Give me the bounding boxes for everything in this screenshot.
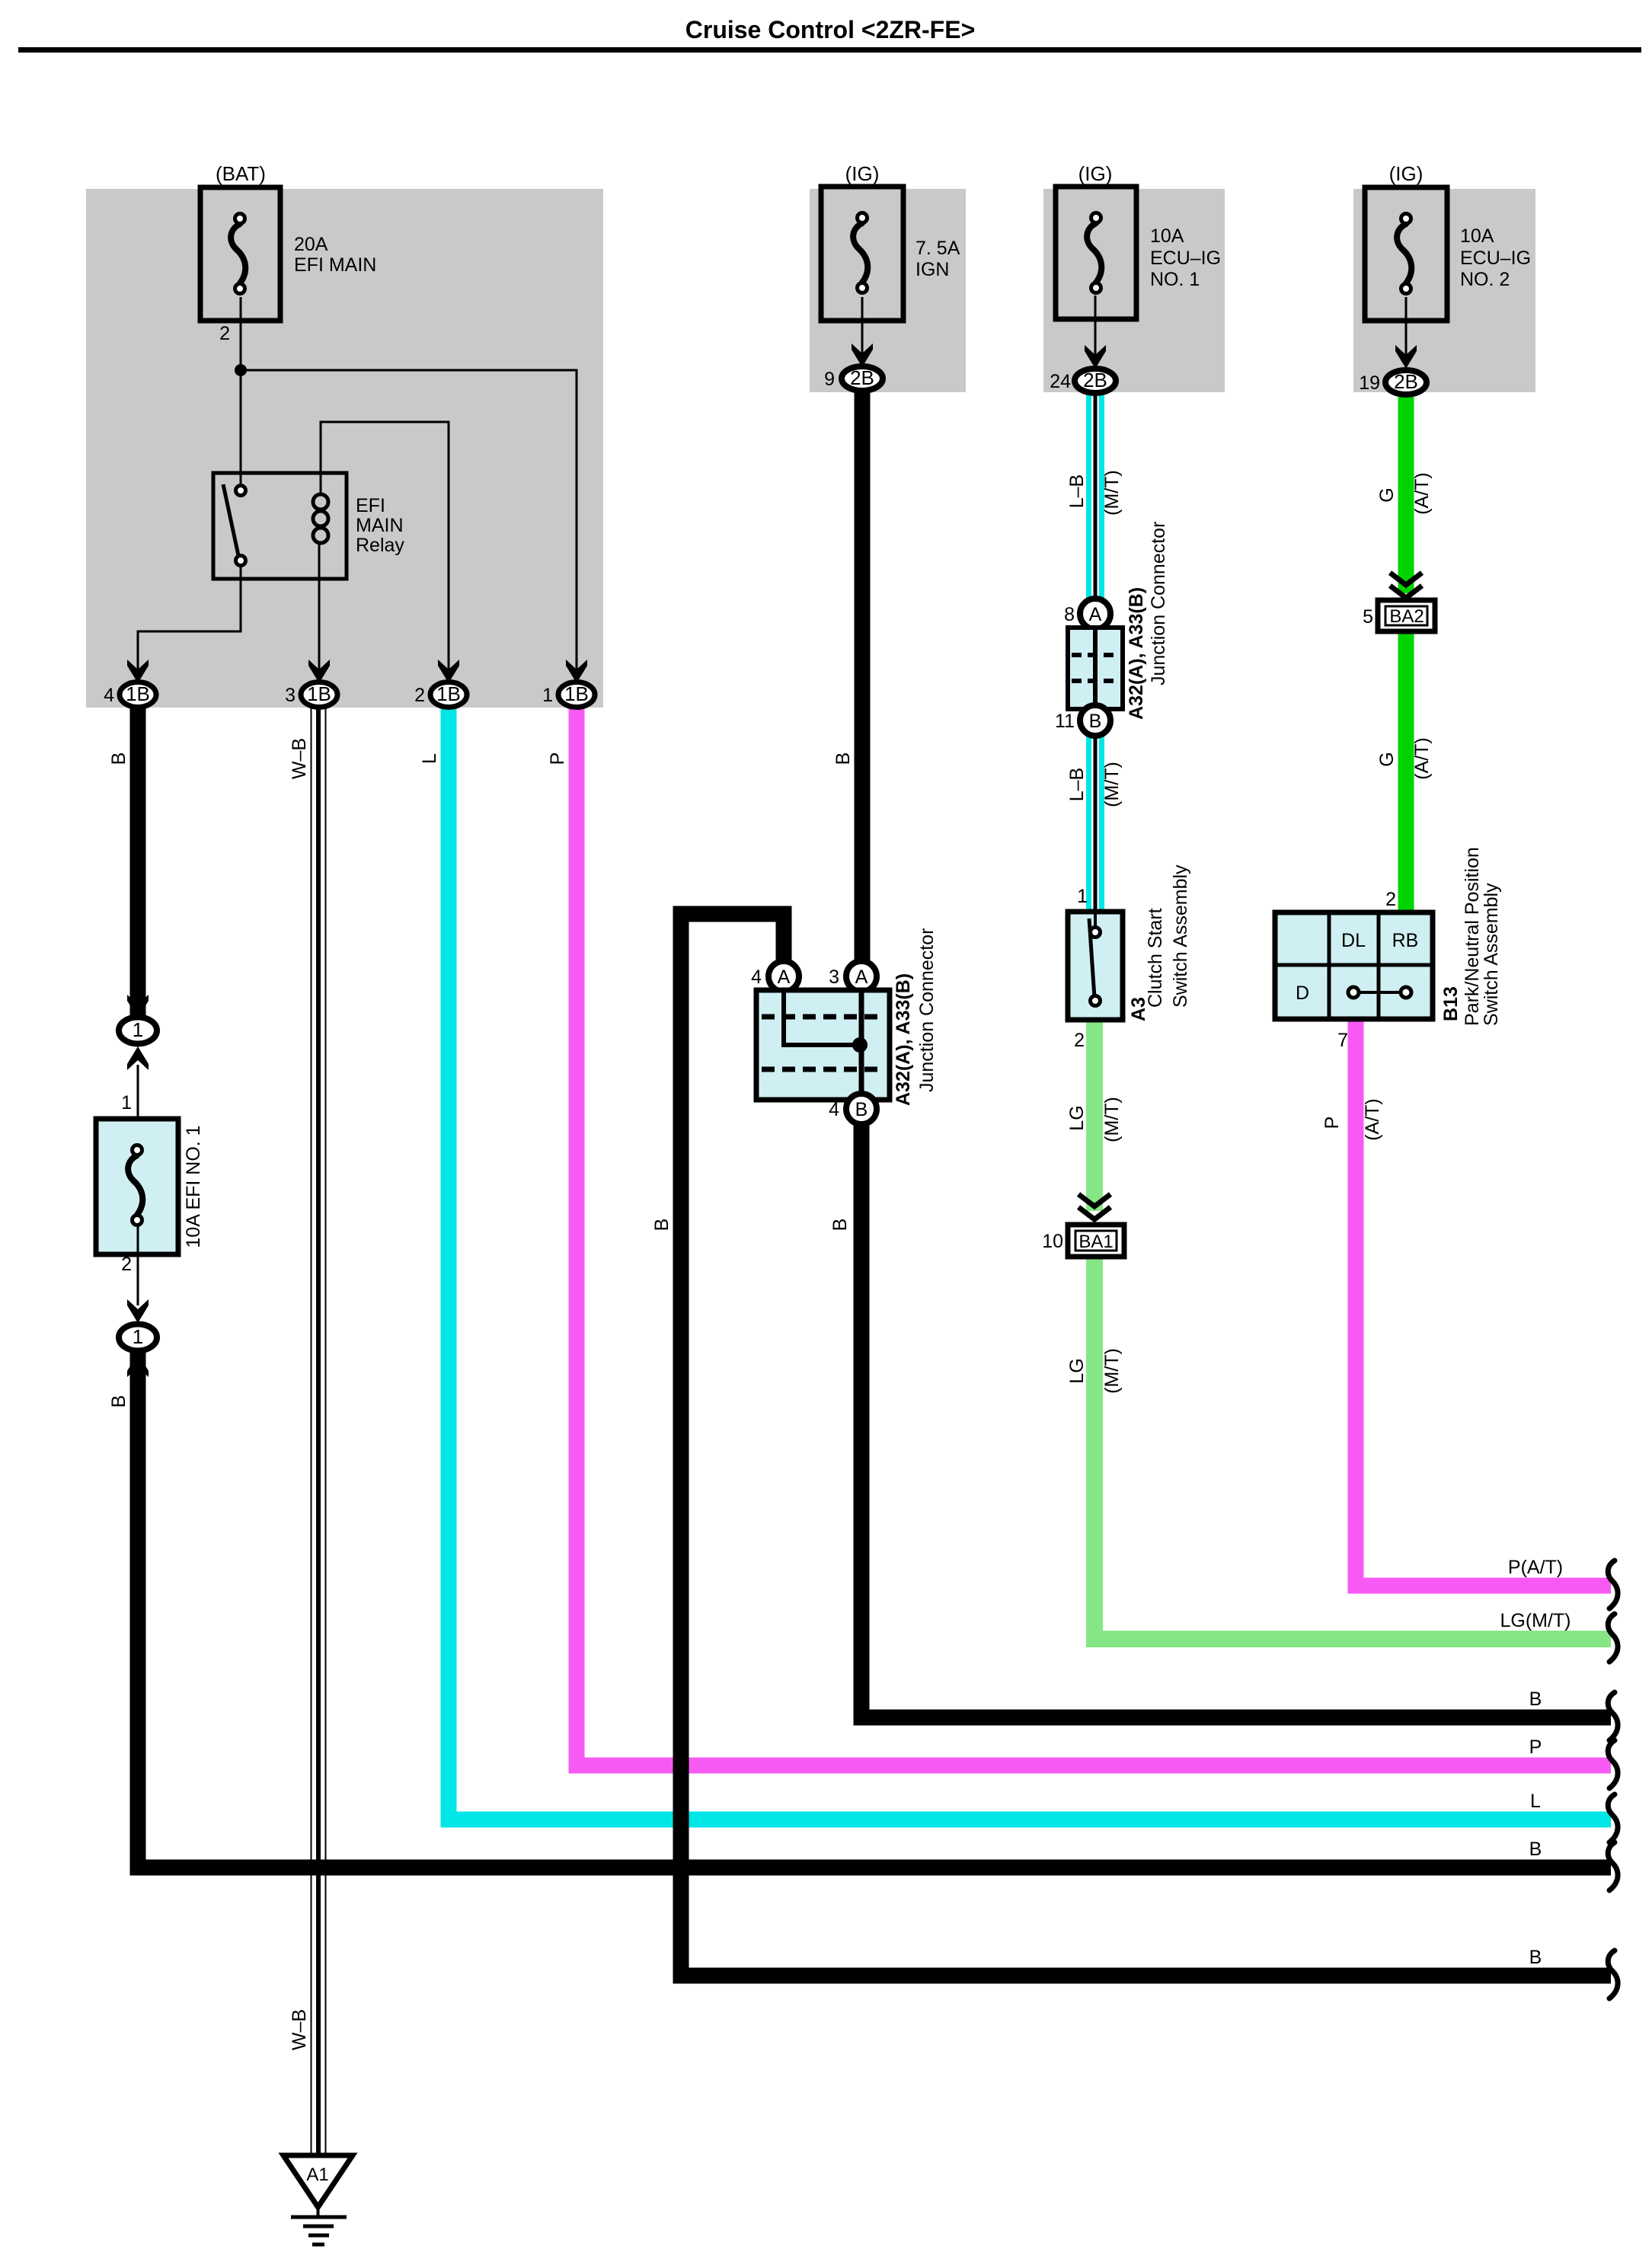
fuse 10A EFI NO. 1 [96, 1119, 178, 1254]
svg-text:(A/T): (A/T) [1362, 1098, 1383, 1141]
B13 contact left [1348, 987, 1359, 998]
svg-text:2B: 2B [1394, 370, 1418, 393]
svg-text:A: A [855, 966, 868, 988]
svg-text:B: B [1529, 1839, 1542, 1860]
svg-text:BA1: BA1 [1078, 1232, 1113, 1252]
svg-text:5: 5 [1363, 606, 1373, 628]
svg-text:B: B [108, 1395, 129, 1408]
arrowhead into connector 1 (top) [127, 995, 149, 1018]
junction connector A32/A33 small box [1068, 628, 1123, 709]
svg-text:19: 19 [1359, 372, 1380, 394]
svg-text:11: 11 [1055, 711, 1075, 732]
svg-text:Junction Connector: Junction Connector [1148, 522, 1169, 685]
svg-text:W–B: W–B [289, 2009, 310, 2050]
wire node 2 of fuse EFI MAIN to junction dot [240, 297, 242, 370]
clutch switch lever [1089, 919, 1094, 998]
wire junction dot to 1B pin 1 [241, 370, 577, 683]
B13 contact right [1401, 987, 1411, 998]
junction connector internal node dot [852, 1037, 868, 1053]
svg-text:B: B [1529, 1947, 1542, 1968]
svg-text:Clutch Start: Clutch Start [1145, 908, 1166, 1008]
junction connector ring B11 [1080, 705, 1110, 736]
relay EFI MAIN box [213, 473, 347, 579]
svg-text:RB: RB [1392, 930, 1419, 951]
wire L cyan from 1B pin 2 to right edge [449, 708, 1611, 1820]
svg-text:B13: B13 [1440, 986, 1462, 1021]
svg-text:9: 9 [824, 369, 835, 390]
wire fuse EFI NO.1 to connector 1 (lower) [137, 1223, 139, 1305]
node junction dot below fuse EFI MAIN [235, 364, 247, 376]
svg-text:1B: 1B [436, 682, 461, 705]
relay switch contact top [236, 486, 246, 496]
connector 1 (upper) [119, 1018, 157, 1044]
svg-text:G: G [1376, 487, 1398, 502]
svg-text:2B: 2B [1083, 369, 1107, 391]
svg-text:1B: 1B [126, 682, 150, 705]
connector 2B pin 19 [1385, 370, 1427, 395]
continuation squiggle for P(A/T) wire [1608, 1561, 1618, 1609]
svg-text:1B: 1B [307, 682, 331, 705]
continuation squiggle for B wire [1608, 1692, 1618, 1740]
title rule [18, 47, 1641, 53]
gray fuse panel (IG) ECU-IG NO.1 [1043, 189, 1225, 392]
wire B thick from junction connector B4 to right edge [861, 1123, 1611, 1717]
arrowhead into 1B pin 2 [438, 660, 459, 683]
svg-text:(M/T): (M/T) [1101, 1097, 1123, 1142]
svg-text:2: 2 [121, 1254, 132, 1275]
chevrons into BA2 [1390, 573, 1422, 585]
arrowhead up below connector 1 (bottom) [127, 1353, 149, 1377]
svg-text:D: D [1296, 982, 1309, 1004]
svg-text:1: 1 [121, 1092, 132, 1113]
svg-text:Switch Assembly: Switch Assembly [1170, 864, 1191, 1008]
svg-text:L–B: L–B [1066, 768, 1088, 801]
wire fuse IGN to 2B pin 9 [861, 297, 864, 355]
wire P magenta from 1B pin 1 to right edge [577, 708, 1611, 1765]
svg-text:LG: LG [1066, 1358, 1088, 1383]
svg-text:8: 8 [1064, 604, 1075, 625]
svg-text:10: 10 [1042, 1231, 1063, 1252]
fuse 10A ECU-IG NO.1 [1056, 187, 1136, 319]
svg-text:L: L [419, 753, 440, 764]
arrowhead into 1B pin 1 [566, 660, 587, 683]
svg-text:Park/Neutral Position: Park/Neutral Position [1462, 847, 1483, 1026]
svg-text:EFI MAIN: EFI MAIN [294, 254, 376, 276]
svg-text:P: P [1529, 1736, 1542, 1758]
fuse 7.5A IGN [821, 187, 903, 321]
svg-text:G: G [1376, 752, 1398, 766]
svg-text:Cruise Control <2ZR-FE>: Cruise Control <2ZR-FE> [685, 16, 976, 43]
wire G from BA2 to park/neutral switch pin 2 [1398, 631, 1414, 913]
svg-text:A32(A), A33(B): A32(A), A33(B) [893, 973, 914, 1106]
connector 1B pin 1 [558, 682, 595, 708]
svg-text:A32(A), A33(B): A32(A), A33(B) [1126, 587, 1147, 720]
wire fuse ECU-IG NO.1 to 2B pin 24 [1094, 296, 1097, 355]
svg-text:P: P [1321, 1117, 1343, 1129]
connector 2B pin 24 [1075, 369, 1116, 393]
continuation squiggle for L wire [1608, 1794, 1618, 1842]
svg-text:B: B [855, 1099, 868, 1120]
connector BA1 [1068, 1225, 1124, 1257]
svg-text:2: 2 [1385, 889, 1396, 910]
svg-text:MAIN: MAIN [356, 515, 404, 536]
svg-text:(IG): (IG) [845, 162, 880, 185]
svg-text:DL: DL [1341, 930, 1366, 951]
junction connector ring A8 [1080, 599, 1110, 629]
svg-text:2: 2 [1074, 1030, 1085, 1051]
svg-text:20A: 20A [294, 234, 328, 255]
wire L-B from 2B pin 24 to junction connector A8 [1086, 393, 1104, 599]
arrowhead into 2B pin 24 [1085, 345, 1106, 369]
arrowhead into 1B pin 4 [127, 660, 149, 683]
gray relay/fuse panel (BAT) [86, 189, 603, 708]
wire L-B from junction connector B11 to clutch switch pin 1 [1086, 735, 1104, 912]
gray fuse panel (IG) ECU-IG NO.2 [1353, 189, 1535, 392]
svg-text:A: A [778, 966, 791, 988]
wire relay switch to 1B pin 4 [138, 565, 241, 683]
svg-text:Switch Assembly: Switch Assembly [1481, 883, 1502, 1026]
wire relay coil to 1B pin 3 [318, 542, 321, 683]
arrowhead into 2B pin 9 [852, 343, 873, 367]
arrowhead into 2B pin 19 [1395, 345, 1417, 369]
fuse 20A EFI MAIN [200, 187, 280, 321]
wire LG from clutch switch pin 2 to BA1 [1086, 1019, 1103, 1211]
svg-text:B: B [651, 1219, 673, 1232]
svg-text:B: B [108, 752, 129, 765]
wire connector 1 to fuse EFI NO.1 [137, 1065, 139, 1147]
ground hatch lines [291, 2216, 347, 2219]
svg-text:10A: 10A [1460, 225, 1494, 247]
fuse 10A ECU-IG NO.2 [1365, 187, 1447, 321]
wire B thick from 1B pin 4 to connector 1 [130, 708, 146, 1018]
svg-text:(M/T): (M/T) [1101, 762, 1123, 807]
junction connector A32/A33 ring A3 [846, 961, 877, 992]
svg-text:1: 1 [133, 1325, 143, 1348]
chevrons into BA1 [1078, 1194, 1110, 1206]
connector 1B pin 4 [120, 682, 156, 708]
junction connector internal link [784, 992, 856, 1045]
svg-text:LG: LG [1066, 1105, 1088, 1130]
clutch switch contact bottom [1091, 996, 1101, 1006]
svg-text:NO. 1: NO. 1 [1150, 269, 1200, 290]
svg-text:2: 2 [414, 685, 425, 706]
junction connector A32/A33 ring B4 [846, 1094, 877, 1124]
connector 1B pin 3 [301, 682, 337, 708]
svg-text:P: P [547, 752, 568, 765]
wire relay coil feed from 1B pin 2 riser [321, 422, 449, 683]
svg-text:2B: 2B [850, 366, 874, 389]
svg-text:(A/T): (A/T) [1411, 737, 1433, 780]
svg-text:4: 4 [104, 685, 114, 706]
wire B thick from connector 1 to right edge [138, 1353, 1611, 1867]
wire fuse ECU-IG NO.2 to 2B pin 19 [1405, 297, 1408, 355]
svg-text:L: L [1530, 1791, 1541, 1812]
svg-text:NO. 2: NO. 2 [1460, 269, 1510, 290]
connector 2B pin 9 [842, 366, 883, 391]
wire B thick from 2B pin 9 to junction connector A3 ring [855, 390, 871, 962]
svg-text:B: B [832, 752, 854, 765]
wire B thick branch elbow to junction connector A4 and right edge [681, 914, 1611, 1976]
arrowhead into connector 1 (bottom) [127, 1299, 149, 1323]
svg-text:B: B [829, 1219, 851, 1232]
svg-text:(M/T): (M/T) [1101, 1348, 1123, 1394]
svg-text:2: 2 [219, 323, 230, 344]
svg-text:1: 1 [1077, 886, 1088, 907]
svg-text:(A/T): (A/T) [1411, 472, 1433, 515]
svg-text:ECU–IG: ECU–IG [1150, 248, 1221, 269]
B13 switch link [1359, 991, 1401, 994]
svg-text:3: 3 [829, 966, 839, 988]
svg-text:W–B: W–B [289, 738, 310, 779]
svg-text:(IG): (IG) [1389, 162, 1424, 185]
continuation squiggle for B wire [1608, 1950, 1618, 1998]
svg-text:P(A/T): P(A/T) [1508, 1557, 1563, 1578]
svg-text:(M/T): (M/T) [1101, 470, 1123, 516]
svg-text:(IG): (IG) [1078, 162, 1113, 185]
arrowhead up below connector 1 (top) [127, 1046, 149, 1070]
svg-text:EFI: EFI [356, 495, 385, 516]
svg-text:L–B: L–B [1066, 474, 1088, 508]
continuation squiggle for P wire [1608, 1740, 1618, 1788]
svg-text:7. 5A: 7. 5A [915, 238, 960, 259]
svg-text:A1: A1 [306, 2165, 328, 2185]
connector 1B pin 2 [430, 682, 467, 708]
arrowhead into 1B pin 3 [308, 660, 330, 683]
continuation squiggle for B wire [1608, 1842, 1618, 1890]
svg-text:10A EFI NO. 1: 10A EFI NO. 1 [183, 1125, 204, 1248]
svg-text:BA2: BA2 [1389, 606, 1424, 627]
svg-text:1: 1 [542, 685, 553, 706]
svg-text:4: 4 [751, 966, 762, 988]
clutch start switch assembly box [1068, 912, 1123, 1020]
svg-text:ECU–IG: ECU–IG [1460, 248, 1531, 269]
relay switch contact bottom [236, 556, 246, 566]
svg-text:A: A [1089, 604, 1102, 625]
clutch switch contact top [1091, 928, 1101, 938]
svg-text:24: 24 [1050, 371, 1071, 392]
svg-text:Junction Connector: Junction Connector [916, 928, 938, 1092]
svg-text:IGN: IGN [915, 259, 949, 280]
svg-text:B: B [1089, 711, 1102, 732]
junction connector A32(A) A33(B) box [756, 990, 890, 1100]
wire LG from BA1 to right edge [1094, 1257, 1611, 1639]
wire P magenta from park/neutral switch pin 7 to right edge [1356, 1019, 1611, 1586]
wire junction dot to relay contact [240, 370, 242, 494]
ground A1 triangle [283, 2155, 353, 2207]
svg-text:(BAT): (BAT) [216, 162, 266, 185]
relay coil [313, 494, 328, 510]
connector BA2 [1378, 600, 1435, 631]
gray fuse panel (IG) IGN [810, 189, 966, 392]
relay switch lever [223, 484, 239, 559]
junction connector A32/A33 ring A4 [768, 961, 799, 992]
svg-text:7: 7 [1337, 1030, 1348, 1051]
svg-text:1B: 1B [564, 682, 589, 705]
svg-text:4: 4 [829, 1099, 839, 1120]
wire W-B double line from 1B pin 3 to ground A1 [311, 708, 312, 2154]
wire stub to clutch switch contact [1094, 912, 1097, 929]
svg-text:1: 1 [133, 1018, 143, 1041]
svg-text:LG(M/T): LG(M/T) [1500, 1610, 1571, 1631]
continuation squiggle for LG(M/T) wire [1608, 1614, 1618, 1662]
svg-text:B: B [1529, 1689, 1542, 1710]
svg-text:10A: 10A [1150, 225, 1184, 247]
ground stem [317, 2207, 320, 2217]
svg-text:Relay: Relay [356, 535, 404, 556]
wire G from 2B pin 19 to BA2 [1398, 394, 1414, 593]
connector 1 (lower) [119, 1324, 157, 1351]
svg-text:3: 3 [285, 685, 296, 706]
park/neutral position switch box [1275, 912, 1433, 1019]
